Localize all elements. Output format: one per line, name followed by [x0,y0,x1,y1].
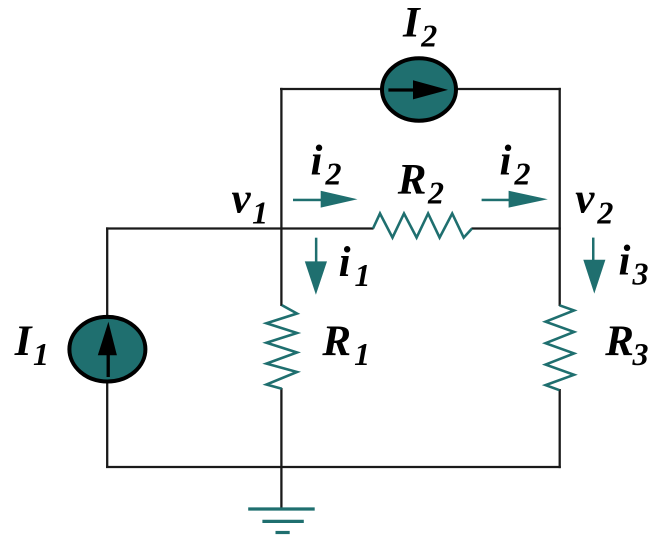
ground [248,509,315,533]
wire right vertical lower (R3 bottom to bottom rail) [559,389,561,468]
resistor R3 [546,305,574,390]
wire ground stem [280,467,282,509]
current source I1 [69,317,145,382]
wire middle rail right segment (R2 right lead to node v2) [472,227,561,229]
current source I2 [382,58,456,120]
current arrow i3 [583,238,605,294]
resistor R1 [267,305,298,389]
wire right vertical upper (top rail to R3 top) [559,88,561,306]
current arrow i2 right [482,191,548,208]
current arrow i1 [305,238,327,295]
wire top rail [280,88,561,90]
wire bottom rail [106,466,561,468]
wire left branch vertical through I1 [106,227,108,467]
current arrow i2 left [293,191,358,208]
wire center vertical upper (top rail to R1 top) [280,88,282,306]
wire center vertical lower (R1 bottom to bottom rail) [280,388,282,467]
resistor R2 [373,214,472,238]
wire middle rail left segment (node v1 to R2 left lead) [106,227,374,229]
